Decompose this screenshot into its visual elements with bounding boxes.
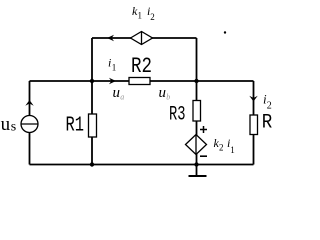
svg-text:a: a (120, 93, 124, 102)
svg-text:2: 2 (267, 101, 272, 112)
svg-text:s: s (11, 120, 16, 135)
svg-text:2: 2 (219, 143, 224, 153)
svg-text:R: R (262, 112, 273, 135)
svg-text:1: 1 (138, 11, 143, 21)
svg-text:1: 1 (112, 63, 117, 73)
svg-text:R3: R3 (169, 104, 186, 127)
svg-text:u: u (159, 85, 167, 101)
svg-text:2: 2 (150, 12, 155, 22)
svg-text:b: b (166, 93, 170, 102)
svg-text:R2: R2 (131, 54, 152, 79)
svg-text:u: u (113, 85, 121, 101)
svg-text:R1: R1 (66, 115, 85, 138)
svg-text:1: 1 (230, 145, 235, 155)
svg-text:u: u (1, 114, 11, 135)
